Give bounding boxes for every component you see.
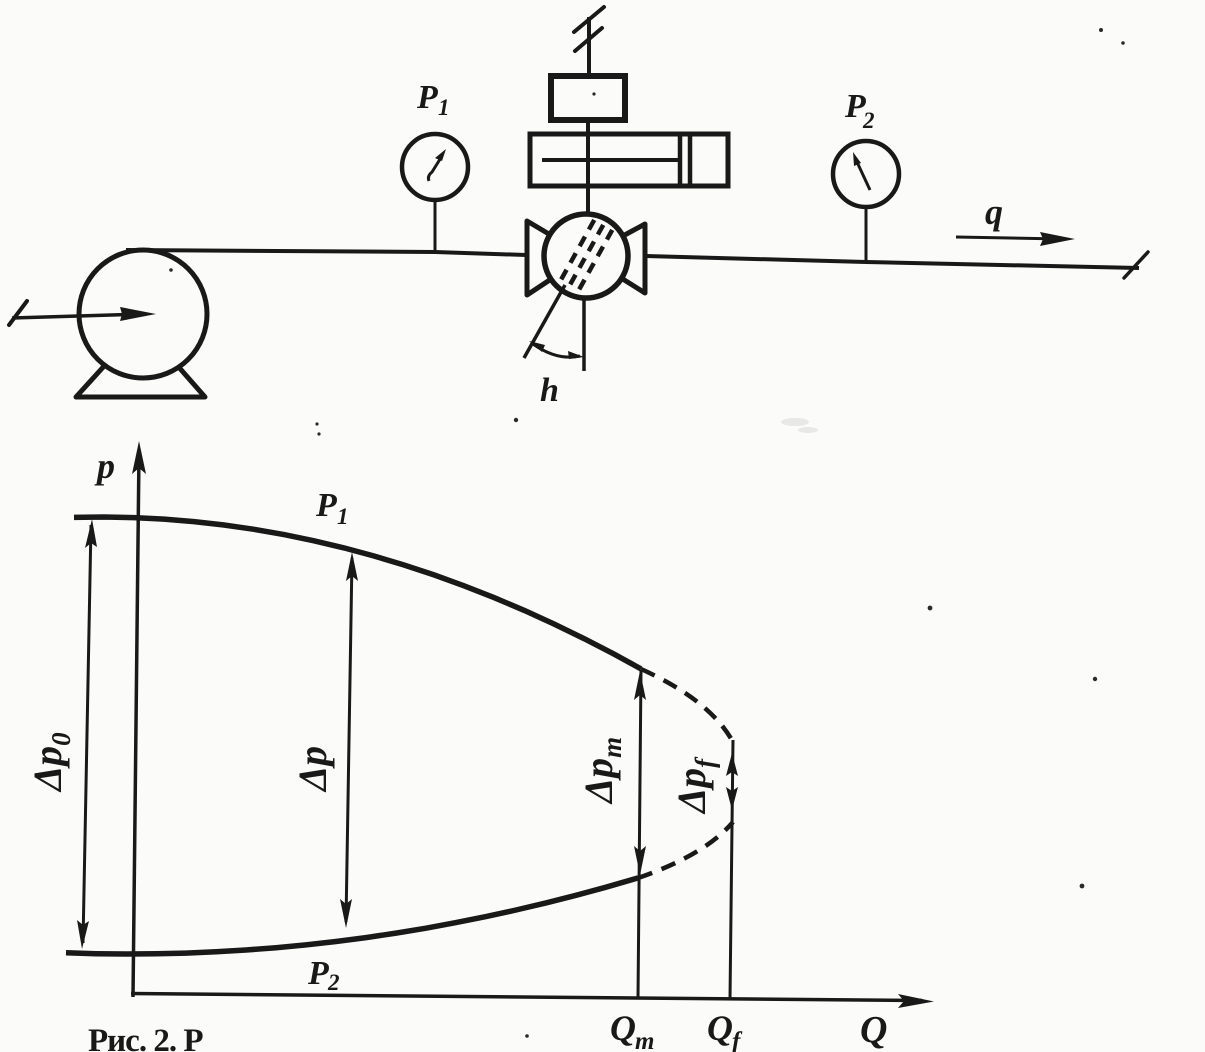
graph x-axis (131, 994, 934, 1009)
gauge P2 (833, 141, 899, 207)
label P1 (curve) (315, 487, 349, 529)
svg-text:P: P (315, 487, 337, 524)
svg-text:2: 2 (862, 108, 875, 133)
curve P1 (upper) (74, 517, 641, 669)
svg-text:Q: Q (610, 1008, 636, 1048)
valve stem (586, 120, 590, 215)
svg-text:P: P (416, 79, 438, 116)
svg-text:p: p (94, 446, 115, 486)
dp dimension arrow (340, 552, 358, 928)
h angle arc arrow (529, 341, 584, 359)
label Qf (x-axis) (707, 1008, 743, 1052)
svg-text:Рис. 2. Р: Рис. 2. Р (88, 1023, 203, 1052)
svg-text:Q: Q (707, 1008, 733, 1048)
gauge P2 stem (865, 206, 868, 263)
pump base (76, 364, 205, 397)
curve P2 dashed continuation (638, 822, 733, 878)
actuator cylinder (530, 132, 728, 188)
svg-text:Q: Q (860, 1009, 887, 1051)
dp0 dimension arrow (77, 519, 97, 949)
label P2 (844, 88, 875, 133)
svg-text:1: 1 (337, 504, 349, 529)
label dp0 (25, 732, 76, 793)
valve left seat triangle (527, 221, 586, 295)
svg-text:m: m (635, 1028, 654, 1052)
gauge P1 (402, 134, 468, 200)
gauge P1 stem (434, 199, 437, 253)
pump inlet arrow (9, 301, 156, 325)
pump circle (79, 250, 207, 378)
svg-text:Δp: Δp (290, 746, 335, 793)
curve P1 dashed continuation (641, 669, 733, 742)
Qf ordinate with dpf arrows (726, 740, 738, 999)
h angle stem line (582, 298, 586, 371)
valve plug hatch (dashed) (552, 206, 620, 306)
label h (540, 372, 559, 409)
svg-text:2: 2 (327, 970, 340, 995)
valve right seat triangle (586, 224, 645, 293)
h angle diagonal line (524, 285, 565, 358)
graph y-axis (132, 441, 146, 997)
curve P2 (lower) (66, 878, 638, 954)
label q (985, 192, 1003, 232)
positioner box (551, 76, 625, 120)
Qm ordinate with dpm arrows (634, 670, 646, 998)
svg-text:1: 1 (438, 95, 450, 120)
caption (clipped at bottom) (88, 1023, 203, 1052)
svg-text:q: q (985, 192, 1003, 232)
svg-text:h: h (540, 372, 559, 409)
label dpm (576, 737, 627, 805)
actuator upper stem with slashes (574, 7, 604, 74)
valve body circle (544, 214, 628, 298)
label dpf (669, 756, 720, 815)
label P1 (416, 79, 450, 120)
label P2 (curve) (307, 955, 340, 995)
faint smudge (781, 418, 818, 433)
label dp (290, 746, 335, 793)
scan specks (169, 28, 1125, 1038)
label p (y-axis) (94, 446, 115, 486)
label Q (x-axis) (860, 1009, 887, 1051)
wire pipeline left (pump to valve) (126, 250, 526, 255)
svg-text:P: P (307, 955, 329, 992)
label Qm (x-axis) (610, 1008, 654, 1052)
flow arrow q (956, 232, 1075, 246)
wire pipeline right (valve to end) (646, 252, 1148, 278)
